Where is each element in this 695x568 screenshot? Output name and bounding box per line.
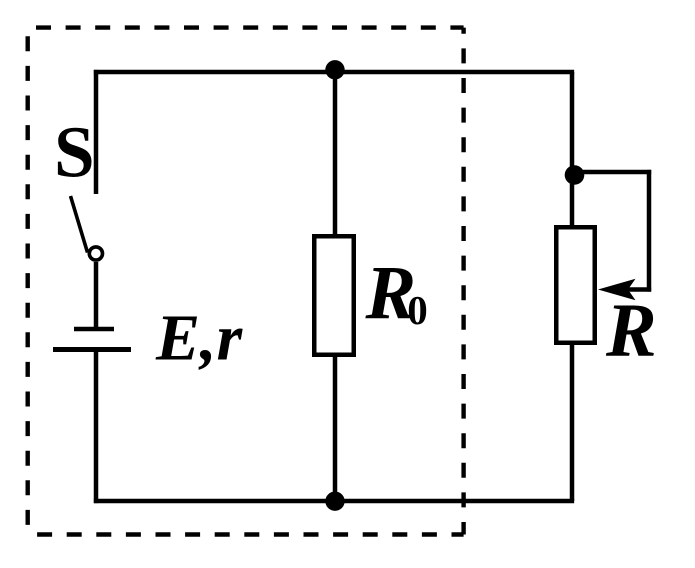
node: bottom junction dot [325, 492, 344, 511]
switch S blade [71, 196, 88, 253]
wire: top rail [94, 70, 574, 75]
rheostat R body [556, 227, 595, 343]
dashed enclosure box [28, 28, 464, 535]
wire: left vertical upper (to switch) [94, 70, 99, 194]
wire: battery to bottom rail [94, 350, 99, 504]
wire: right branch lower [570, 341, 575, 501]
wire: wiper tap into arrow [628, 287, 651, 292]
rheostat wiper arrowhead [598, 279, 636, 301]
resistor R0 body [314, 236, 354, 355]
svg-text:R0: R0 [365, 251, 428, 335]
wire: switch to battery [94, 262, 99, 329]
wire: bottom rail [94, 499, 574, 504]
wire: wiper tap horizontal from node [572, 170, 651, 175]
wire: right branch upper [570, 72, 575, 231]
wire: middle branch lower [333, 353, 338, 501]
svg-text:S: S [54, 112, 95, 193]
battery E,r top plate (short) [74, 327, 114, 332]
switch S contact circle [89, 247, 102, 260]
wire: wiper tap vertical [647, 170, 652, 292]
svg-text:E,r: E,r [155, 302, 244, 375]
battery E,r bottom plate (long) [53, 347, 131, 352]
node: top junction dot [325, 60, 344, 79]
wire: middle branch upper [333, 72, 338, 240]
svg-text:R: R [605, 289, 657, 373]
node: right junction dot [565, 165, 585, 185]
